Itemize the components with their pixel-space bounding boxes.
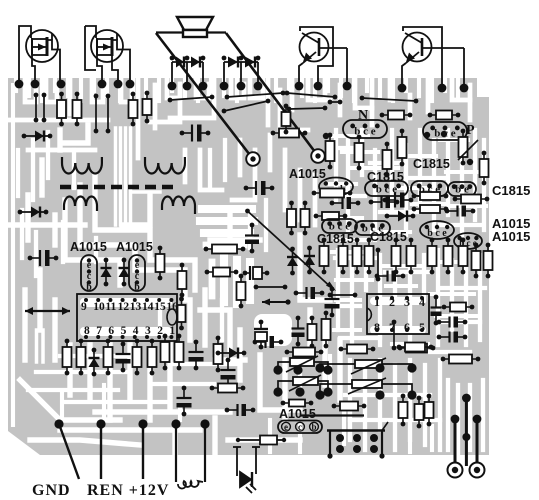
svg-text:4: 4: [133, 325, 139, 337]
diode D13: [287, 247, 298, 276]
resistor R44: [308, 316, 317, 349]
transistor footprint ellipse bottom: [278, 421, 322, 434]
svg-text:2: 2: [157, 325, 163, 337]
capacitor C11: [375, 271, 406, 282]
GND lead wire: [59, 424, 79, 479]
resistor RV2: [339, 238, 348, 275]
diode D9: [89, 348, 100, 377]
resistor R26: [210, 384, 246, 393]
arrow link: [262, 299, 291, 306]
resistor R4: [143, 91, 152, 124]
svg-text:10: 10: [93, 301, 105, 313]
output terminal ring 2: [470, 463, 485, 478]
speaker wire to ring pad B: [226, 33, 318, 156]
white routed traces: [11, 85, 15, 425]
svg-text:b c e: b c e: [427, 228, 447, 239]
capacitor C15: [437, 332, 468, 343]
jumper link J2a: [225, 91, 286, 100]
resistor R22: [205, 268, 239, 277]
capacitor C16 (boxed): [254, 320, 268, 350]
diagonal test wire with arrow: [245, 209, 336, 291]
diagonal wire right top: [458, 140, 478, 160]
transistor Q4 (driver, symbol): [402, 27, 464, 88]
svg-text:14: 14: [142, 301, 154, 313]
svg-text:11: 11: [105, 301, 116, 313]
resistor R53: [397, 343, 434, 352]
resistor R39: [472, 243, 481, 279]
transformer T2 primary winding: [145, 157, 185, 173]
jumper link J4: [360, 96, 419, 104]
resistor R43: [398, 344, 436, 353]
solder pad Q4 #3: [460, 84, 469, 93]
resistor R38: [428, 111, 461, 120]
resistor R51: [285, 348, 324, 357]
IC U1 (16-pin DIP): [77, 294, 178, 341]
jumper link J2b: [285, 91, 338, 100]
capacitor C1: [180, 125, 211, 142]
transistor footprint T5 (b c e): [365, 181, 408, 196]
resistor R59: [314, 212, 348, 220]
svg-text:e: e: [284, 422, 288, 432]
solder ring pad B: [311, 149, 325, 163]
resistor R54: [332, 402, 367, 411]
resistor RV4: [365, 238, 374, 275]
diode D5: [22, 131, 53, 142]
svg-text:C1815: C1815: [413, 157, 450, 171]
resistor R24: [175, 334, 184, 371]
transformer T1 secondary winding: [64, 197, 97, 212]
resistor R11: [63, 339, 72, 376]
+12V lead wire: [142, 424, 144, 479]
solder pad Q3 #1: [295, 82, 304, 91]
resistor R1: [57, 92, 66, 127]
LED D12 below board: [233, 447, 260, 493]
svg-text:9: 9: [81, 301, 87, 313]
resistor R52: [339, 345, 376, 354]
jumper link J5: [328, 100, 343, 105]
svg-text:A1015: A1015: [289, 167, 326, 181]
resistor R34: [412, 192, 449, 200]
resistor RV8: [444, 238, 453, 275]
svg-text:5: 5: [121, 325, 127, 337]
capacitor C24: [292, 316, 305, 347]
transistor footprint N (b c e): [343, 120, 387, 138]
solder pad top row #4: [98, 80, 107, 89]
pickup coil leads: [176, 424, 205, 488]
resistor R2: [73, 92, 82, 127]
resistor R48: [282, 104, 291, 135]
solder pad top row #11: [237, 82, 246, 91]
solder pad top row #2: [31, 80, 40, 89]
resistor R23: [161, 334, 170, 371]
output wire 2: [462, 394, 471, 466]
resistor R37: [312, 189, 353, 198]
resistor R40: [484, 243, 493, 279]
solder pad Q3 #3: [343, 82, 352, 91]
transformer T1 primary winding: [62, 157, 102, 173]
diode D10: [216, 348, 247, 359]
transformer core (dashed line): [60, 185, 174, 190]
terminal pad coil-1: [171, 419, 180, 428]
resistor R45: [322, 311, 331, 349]
trimmer VR4: [315, 378, 416, 400]
svg-text:b: b: [134, 282, 140, 293]
transistor footprint P (b c e): [423, 122, 467, 140]
diode D7: [101, 258, 112, 287]
capacitor C14: [437, 317, 468, 328]
jumper links under Q1: [34, 93, 39, 123]
solder pad Q4 #1: [398, 84, 407, 93]
resistor R28: [326, 133, 335, 170]
solder ring pad A: [246, 152, 260, 166]
svg-text:8: 8: [84, 325, 90, 337]
resistor R41: [442, 303, 475, 312]
resistor R29: [355, 135, 364, 171]
vertical link J9: [376, 248, 381, 282]
resistor R57: [425, 394, 434, 427]
transistor footprint vertical e-c-b #1: [81, 255, 97, 293]
svg-text:15: 15: [154, 301, 166, 313]
capacitor C21: [116, 342, 131, 373]
svg-text:b c e: b c e: [362, 223, 384, 235]
resistor R56: [415, 396, 424, 429]
capacitor C10: [445, 206, 476, 217]
svg-text:c: c: [298, 422, 302, 432]
power MOSFET Q2 (symbol): [85, 26, 130, 84]
svg-text:C1815: C1815: [492, 183, 530, 198]
resistor RV3: [353, 238, 362, 275]
jumper link J10: [254, 285, 288, 290]
capacitor C20: [28, 250, 59, 266]
svg-text:b: b: [311, 422, 316, 432]
diode D11: [385, 211, 416, 222]
svg-text:A1015: A1015: [116, 240, 153, 254]
solder pad top row #5: [114, 80, 123, 89]
resistor R49: [178, 263, 187, 298]
resistor R32: [459, 129, 468, 166]
svg-text:A1015: A1015: [70, 240, 107, 254]
svg-text:13: 13: [130, 301, 142, 313]
svg-text:6: 6: [108, 325, 114, 337]
REN lead wire: [100, 424, 102, 479]
jumper link J1: [168, 95, 215, 103]
diode D6: [18, 207, 49, 218]
transistor footprint T10 (b c e): [420, 221, 454, 239]
terminal pad coil-2: [200, 419, 209, 428]
vertical link at U2 pin7: [392, 320, 397, 351]
svg-text:3: 3: [145, 325, 151, 337]
svg-text:c: c: [135, 271, 140, 282]
svg-text:16: 16: [166, 301, 178, 313]
resistor R16: [271, 129, 308, 138]
svg-text:7: 7: [96, 325, 102, 337]
jumper link J3c: [287, 106, 328, 112]
capacitor C25: [294, 287, 325, 299]
resistor R30: [383, 142, 392, 178]
terminal pad +12V: [138, 419, 147, 428]
trimmer VR2: [273, 375, 332, 397]
svg-text:A1015: A1015: [279, 407, 316, 421]
jumper links under Q2: [94, 94, 99, 134]
jumper link J7: [328, 293, 358, 298]
resistor RV7: [428, 238, 437, 275]
resistor R35: [412, 205, 449, 213]
capacitor C6: [177, 386, 192, 417]
capacitor C26: [245, 223, 259, 254]
wire under R54: [300, 414, 364, 416]
svg-text:A1015: A1015: [492, 229, 530, 244]
capacitor C9: [383, 193, 414, 208]
resistor RV6: [407, 238, 416, 275]
loudspeaker LS1: [156, 17, 226, 37]
solder pad Q3 #2: [314, 82, 323, 91]
resistor R17b: [301, 201, 310, 236]
resistor R58: [178, 297, 186, 331]
IC U2 (8-pin DIP): [367, 294, 429, 334]
resistor R10: [156, 246, 165, 281]
resistor R20: [237, 274, 246, 309]
resistor R55: [399, 394, 408, 427]
solder pad top row #9: [199, 82, 208, 91]
trimmer VR1: [273, 356, 332, 375]
capacitor C4: [189, 340, 204, 371]
speaker wire to ring pad A: [156, 33, 253, 159]
solder pad top row #3: [57, 80, 66, 89]
output wire 3: [473, 415, 482, 470]
capacitor C8: [330, 197, 361, 209]
resistor R15: [148, 339, 157, 376]
resistor R25: [214, 336, 223, 373]
solder pad top row #8: [183, 82, 192, 91]
resistor R36: [453, 195, 490, 204]
bus arrow to U1: [25, 307, 70, 315]
svg-text:e: e: [87, 260, 92, 271]
svg-text:GND: GND: [32, 482, 71, 499]
svg-text:1: 1: [169, 325, 175, 337]
capacitor C13: [431, 295, 442, 326]
transistor footprint T8 (b c e): [322, 219, 357, 233]
capacitor C5: [221, 358, 236, 389]
diodes D3 D4 (series pair): [222, 56, 261, 84]
diode D8: [119, 258, 130, 287]
resistor RV9: [459, 238, 468, 275]
resistor R14: [133, 339, 142, 376]
output terminal ring 1: [448, 463, 463, 478]
solder pad top row #1: [15, 80, 24, 89]
resistor R12: [77, 339, 86, 376]
svg-text:b c e: b c e: [329, 221, 351, 233]
terminal pad REN: [96, 419, 105, 428]
transistor footprint T6 (b c e): [411, 181, 448, 196]
capacitor C3 (boxed): [243, 266, 270, 280]
resistor R33: [480, 151, 489, 186]
solder pad Q4 #2: [438, 84, 447, 93]
resistor R27: [236, 436, 286, 445]
solder pad top row #7: [168, 82, 177, 91]
capacitor C17: [253, 336, 284, 348]
diodes D1 D2 (series pair): [170, 56, 206, 84]
svg-text:b: b: [86, 282, 92, 293]
resistor R60: [281, 400, 314, 407]
connector J8 (6 pads): [327, 422, 388, 459]
capacitor C23: [244, 181, 275, 195]
diode D14: [304, 246, 315, 275]
jumper link J3b: [222, 99, 271, 114]
resistor RV5: [392, 238, 401, 275]
resistor R50: [380, 111, 413, 120]
capacitor C7: [225, 404, 256, 416]
PCB copper ground plane: [8, 78, 489, 455]
solder pad top row #12: [254, 82, 263, 91]
svg-text:REN +12V: REN +12V: [87, 482, 169, 499]
resistor R21: [204, 245, 246, 254]
transistor footprint T11 (b c e): [454, 233, 482, 249]
resistor R31: [398, 129, 407, 167]
svg-text:12: 12: [118, 301, 130, 313]
solder pad top row #10: [220, 82, 229, 91]
capacitor C27: [369, 196, 400, 208]
transistor footprint T7 (b c e): [448, 182, 476, 196]
transformer T2 secondary winding: [162, 197, 195, 215]
transistor Q3 (driver, symbol): [299, 27, 347, 84]
pads right column: [424, 132, 430, 138]
power MOSFET Q1 (symbol): [19, 26, 60, 84]
resistor RV1: [320, 238, 329, 275]
resistor R13: [104, 339, 113, 376]
terminal pad GND: [54, 419, 63, 428]
transistor footprint T9 (b c e): [355, 221, 390, 235]
capacitor C12: [325, 287, 340, 318]
resistor R17a: [287, 201, 296, 236]
svg-text:e: e: [135, 260, 140, 271]
svg-text:c: c: [87, 271, 92, 282]
transistor footprint vertical e-c-b #2: [129, 255, 145, 293]
resistor R42: [441, 355, 481, 364]
resistor R3: [129, 92, 138, 127]
trimmer VR3: [315, 358, 416, 374]
solder pad top row #6: [126, 80, 135, 89]
output wire 1: [451, 415, 460, 470]
transistor footprint ellipse e-c-b: [319, 178, 353, 196]
